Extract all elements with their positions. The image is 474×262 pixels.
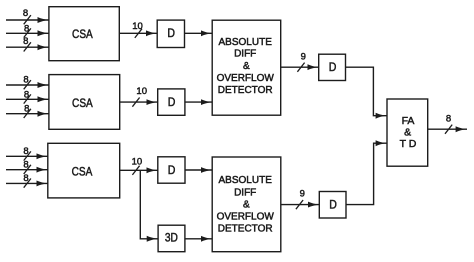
svg-text:8: 8	[23, 173, 28, 184]
svg-text:D: D	[167, 28, 175, 40]
svg-text:D: D	[168, 97, 176, 109]
svg-text:D: D	[329, 200, 337, 212]
svg-text:8: 8	[446, 113, 451, 124]
svg-text:8: 8	[23, 75, 28, 86]
svg-text:8: 8	[24, 90, 29, 101]
svg-text:OVERFLOW: OVERFLOW	[217, 212, 275, 223]
svg-text:8: 8	[24, 23, 29, 34]
svg-text:CSA: CSA	[72, 165, 93, 179]
svg-text:9: 9	[300, 189, 305, 200]
svg-text:DIFF: DIFF	[234, 49, 256, 60]
svg-text:8: 8	[23, 8, 28, 19]
svg-text:&: &	[404, 127, 411, 139]
svg-text:CSA: CSA	[72, 27, 93, 41]
svg-text:10: 10	[132, 156, 143, 167]
svg-text:&: &	[243, 61, 250, 72]
svg-text:FA: FA	[402, 115, 415, 127]
svg-text:ABSOLUTE: ABSOLUTE	[219, 175, 273, 186]
svg-text:ABSOLUTE: ABSOLUTE	[219, 37, 273, 48]
svg-text:DETECTOR: DETECTOR	[218, 85, 273, 96]
svg-text:8: 8	[23, 159, 28, 170]
svg-text:&: &	[243, 200, 250, 211]
svg-text:DIFF: DIFF	[234, 188, 256, 199]
svg-text:OVERFLOW: OVERFLOW	[217, 73, 275, 84]
svg-text:D: D	[168, 165, 176, 177]
svg-text:T D: T D	[400, 138, 417, 150]
svg-text:3D: 3D	[165, 233, 178, 245]
svg-text:9: 9	[301, 52, 306, 63]
svg-text:8: 8	[23, 36, 28, 47]
svg-text:8: 8	[23, 146, 28, 157]
svg-text:CSA: CSA	[72, 96, 93, 110]
svg-text:D: D	[329, 62, 337, 74]
svg-text:10: 10	[136, 86, 147, 97]
svg-text:8: 8	[24, 104, 29, 115]
svg-text:DETECTOR: DETECTOR	[218, 223, 273, 234]
svg-text:10: 10	[132, 21, 143, 32]
